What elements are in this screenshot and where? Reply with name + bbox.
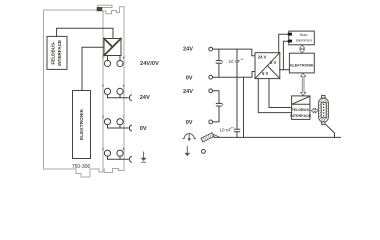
- earth arrow left module: [141, 152, 147, 162]
- svg-text:5: 5: [123, 56, 125, 60]
- converter diagonal TR-BL: [255, 53, 280, 79]
- capacitor C3 wiring: [213, 91, 219, 122]
- svg-text:**: **: [231, 126, 235, 131]
- clamp arc row 2: [129, 95, 131, 101]
- svg-text:INTERFACE: INTERFACE: [290, 114, 311, 118]
- DIN rail wedge symbol: [201, 133, 214, 142]
- connector ground wire: [326, 125, 335, 138]
- feldbus-interface label: [50, 40, 62, 66]
- terminal circle 0V fourth: [209, 120, 213, 124]
- svg-text:24V: 24V: [183, 89, 193, 95]
- clamp arc row 4: [129, 156, 131, 162]
- contact row 2: pins 2,6: [104, 88, 128, 97]
- svg-text:0V: 0V: [186, 75, 193, 81]
- double arrow busklemmen-elektronik: [300, 45, 305, 53]
- svg-text:**: **: [241, 57, 245, 62]
- module foot step bottom-left: [76, 169, 90, 177]
- dc/dc converter box: [255, 53, 280, 79]
- double arrow elektronik-fbi: [301, 73, 306, 95]
- pin numbers 3,7: [102, 115, 125, 119]
- svg-text:5 V: 5 V: [270, 60, 276, 65]
- module outline left/top: [44, 10, 97, 169]
- fbi isolation diagonal: [292, 96, 310, 104]
- wire power box left to elektronik: [82, 47, 104, 90]
- wire feldbus-interface top to power contact box: [57, 28, 113, 38]
- clamp arc row 3: [129, 125, 131, 131]
- svg-text:Bus-: Bus-: [300, 32, 309, 37]
- contact row 1: pins 1,5: [104, 56, 123, 67]
- fieldbus connector shell: [319, 98, 329, 122]
- svg-text:0V: 0V: [140, 126, 147, 132]
- wire bus supply 1 from converter top to busklemmen square: [279, 34, 289, 52]
- connector bottom tab: [322, 122, 325, 124]
- svg-text:24V/0V: 24V/0V: [140, 61, 159, 67]
- contact row 3: pins 3,7: [104, 119, 128, 128]
- svg-text:7: 7: [123, 115, 125, 119]
- svg-text:6: 6: [123, 84, 125, 88]
- bus-klemmen box: [289, 31, 315, 45]
- connector top tab: [322, 95, 325, 98]
- wire 0V branch to ground rail: [243, 77, 245, 137]
- svg-text:FELDBUS-: FELDBUS-: [291, 108, 310, 112]
- feldbus-interface box (left module): [47, 36, 67, 69]
- wedge tail to rail: [214, 135, 220, 138]
- svg-text:*: *: [222, 60, 224, 65]
- wire 0V to converter lower input: [213, 72, 255, 78]
- bus contact square top: [288, 33, 292, 36]
- contact row 4: pins 4,8: [104, 150, 128, 159]
- elektronik box (left module): [73, 91, 91, 159]
- power contact box diagonal TR-BL: [104, 39, 121, 56]
- contact strip inner line: [102, 11, 104, 171]
- module top dark latch square: [97, 7, 103, 11]
- pin numbers 1,5: [102, 56, 125, 60]
- terminal circle 24V top: [209, 47, 213, 51]
- elektronik box right: [289, 53, 314, 73]
- svg-text:2: 2: [102, 84, 104, 88]
- bus contact square bottom: [288, 40, 292, 43]
- svg-text:3: 3: [102, 115, 104, 119]
- capacitor C1 plates: [216, 61, 221, 64]
- power contact box half diagonal TL-center: [104, 39, 113, 48]
- svg-text:FELDBUS-: FELDBUS-: [50, 41, 55, 65]
- converter half diagonal C-BR: [267, 66, 279, 79]
- svg-text:klemmen: klemmen: [296, 38, 312, 43]
- svg-text:750-306: 750-306: [72, 164, 91, 170]
- wire converter bottom to fbi lower: [258, 79, 291, 113]
- capacitor C2 plates: [234, 129, 239, 132]
- pin numbers 2,6: [102, 84, 125, 88]
- svg-text:*: *: [222, 103, 224, 108]
- connector inner pin field: [321, 102, 326, 118]
- feldbus-interface box right: [292, 96, 310, 120]
- terminal circle 24V third: [209, 89, 213, 93]
- svg-text:24V: 24V: [183, 46, 193, 52]
- svg-text:10 nF: 10 nF: [229, 59, 241, 64]
- module top latch profile: [103, 7, 125, 162]
- terminal circle 0V second: [209, 75, 213, 79]
- svg-text:4: 4: [102, 147, 104, 151]
- connector pins: [323, 104, 325, 117]
- wire 24V to converter: [213, 49, 255, 56]
- svg-text:1: 1: [102, 56, 104, 60]
- wire converter bottom to fbi upper: [269, 79, 292, 108]
- capacitor C3 plates: [216, 103, 221, 106]
- legend earth arrow: [185, 146, 191, 156]
- wire converter to elektronik: [280, 69, 290, 71]
- svg-text:0V: 0V: [186, 120, 193, 126]
- capacitor C1 wire: [218, 49, 220, 77]
- svg-text:ELEKTRONIK: ELEKTRONIK: [290, 64, 314, 68]
- module DIN-rail notch bottom: [90, 162, 124, 173]
- svg-text:ELEKTRONIK: ELEKTRONIK: [79, 108, 85, 140]
- double arrow fbi-connector: [311, 108, 318, 113]
- svg-text:INTERFACE: INTERFACE: [57, 40, 62, 66]
- wire 24V branch to bottom cap: [236, 49, 238, 137]
- svg-text:24V: 24V: [140, 95, 150, 101]
- svg-text:5 V: 5 V: [262, 71, 268, 76]
- pin numbers 4,8: [102, 147, 125, 151]
- legend terminal circle: [202, 150, 206, 154]
- wire bus supply 2 from elektronik wire to busklemmen square: [283, 41, 288, 69]
- svg-text:8: 8: [123, 147, 125, 151]
- chassis rail: [214, 136, 341, 138]
- legend shield symbol: [183, 134, 196, 142]
- svg-text:10 nF: 10 nF: [220, 128, 232, 133]
- module top tab outline: [98, 5, 112, 7]
- svg-text:24 V: 24 V: [258, 55, 267, 60]
- power jumper contact box: [104, 39, 121, 56]
